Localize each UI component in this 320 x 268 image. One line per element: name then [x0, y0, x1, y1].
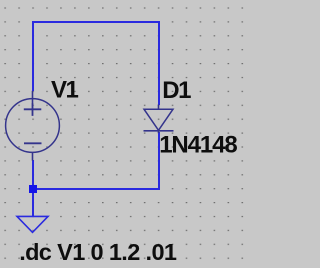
svg-text:1N4148: 1N4148 — [159, 132, 237, 159]
diode D1 — [144, 105, 174, 134]
wire bottom: D1 bottom to junction — [33, 132, 159, 189]
ground — [17, 216, 48, 232]
wire: V1 bottom through junction to ground — [32, 160, 34, 216]
wire top loop: V1 top to D1 top — [33, 22, 159, 105]
svg-text:D1: D1 — [162, 77, 191, 104]
svg-text:.dc V1 0 1.2 .01: .dc V1 0 1.2 .01 — [19, 239, 177, 265]
svg-text:V1: V1 — [51, 77, 79, 104]
voltage source V1 — [6, 91, 60, 161]
junction node — [29, 185, 37, 193]
